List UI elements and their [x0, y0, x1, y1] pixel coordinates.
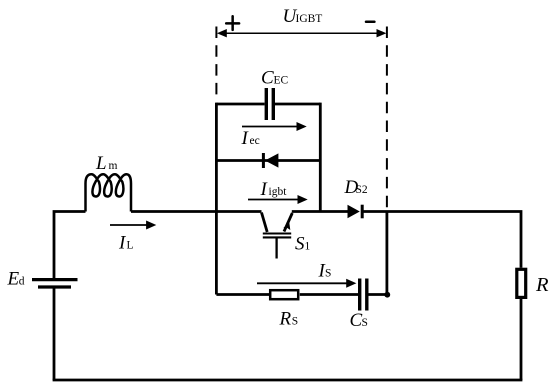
svg-text:1: 1 — [305, 241, 311, 253]
svg-text:E: E — [7, 269, 20, 290]
svg-text:IGBT: IGBT — [296, 13, 323, 25]
svg-text:ec: ec — [250, 135, 260, 147]
svg-text:L: L — [95, 153, 107, 174]
svg-text:S2: S2 — [356, 184, 368, 196]
svg-text:R: R — [535, 274, 549, 296]
svg-text:S: S — [325, 268, 331, 280]
svg-text:EC: EC — [274, 75, 289, 87]
svg-text:S: S — [295, 234, 305, 255]
svg-text:igbt: igbt — [269, 186, 288, 198]
svg-text:R: R — [279, 309, 292, 330]
svg-text:d: d — [19, 276, 25, 288]
svg-text:L: L — [127, 240, 134, 252]
svg-text:m: m — [109, 160, 118, 172]
svg-text:S: S — [292, 316, 298, 328]
svg-text:S: S — [362, 317, 368, 329]
svg-text:C: C — [261, 68, 274, 89]
